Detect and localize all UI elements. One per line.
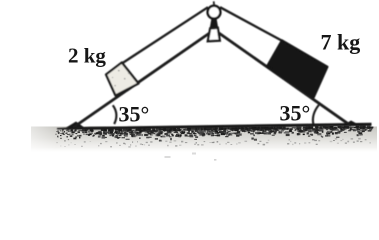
block 2 kg <box>106 63 139 96</box>
svg-text:2 kg: 2 kg <box>68 44 106 68</box>
right angle arc <box>313 105 319 124</box>
svg-text:7 kg: 7 kg <box>321 30 361 55</box>
pulley top pin <box>213 1 215 5</box>
right incline <box>216 31 351 126</box>
left string <box>122 7 208 63</box>
pulley bracket wedge <box>210 13 219 29</box>
right corner ink wedge <box>342 121 360 127</box>
left corner ink wedge <box>66 122 84 128</box>
svg-text:35°: 35° <box>280 101 311 126</box>
faint smudges below ground <box>165 156 171 158</box>
pulley <box>208 6 221 19</box>
ground line <box>57 123 372 130</box>
ground hatch speckles <box>56 126 374 148</box>
ground shading band <box>31 127 377 154</box>
right string <box>220 7 283 41</box>
block 7 kg <box>267 40 327 97</box>
left angle arc <box>113 105 117 124</box>
pulley stand <box>208 28 220 41</box>
svg-text:35°: 35° <box>119 102 150 127</box>
left incline <box>73 31 213 128</box>
